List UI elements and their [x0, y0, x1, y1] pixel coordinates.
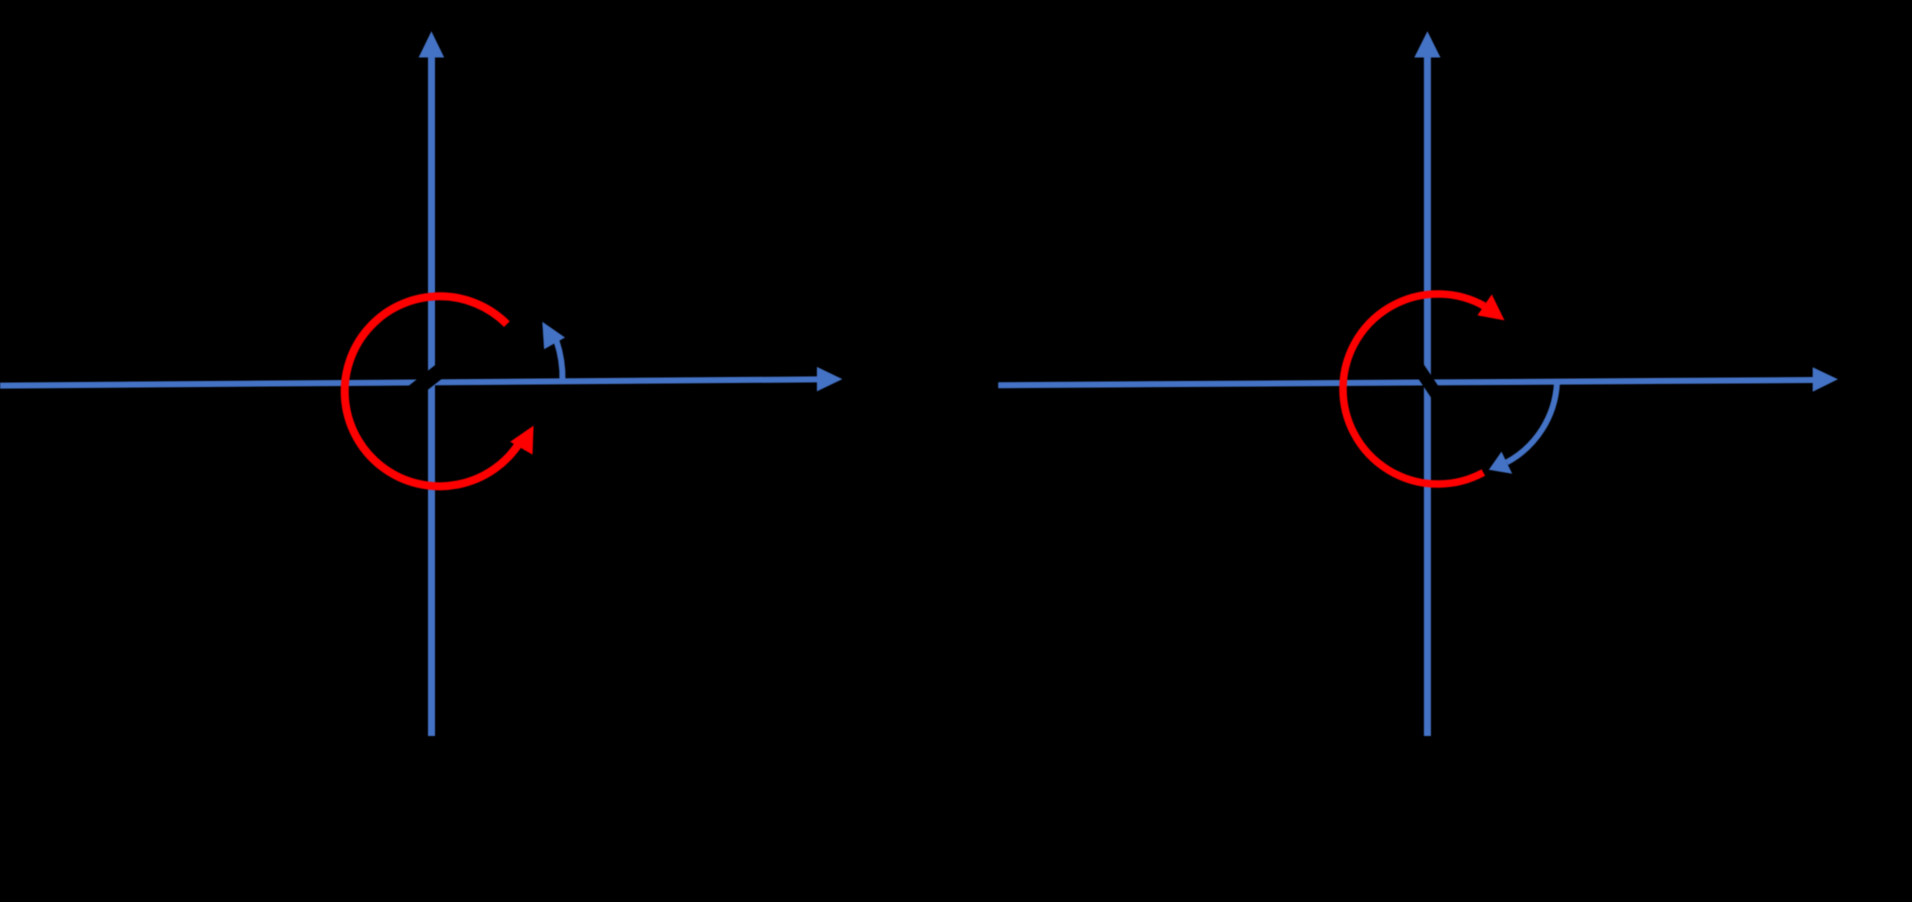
left red counterclockwise circular arrow	[345, 296, 534, 486]
right x-axis arrowhead	[1813, 367, 1838, 392]
left blue angle arc	[542, 322, 565, 381]
left blue arc arrowhead	[542, 322, 565, 350]
right blue arc arrowhead	[1489, 452, 1512, 474]
right black terminal ray (over axes and red arc)	[1406, 354, 1489, 468]
left red arrowhead	[510, 426, 533, 455]
left y-axis arrowhead	[419, 31, 445, 57]
left x-axis line	[0, 367, 842, 392]
right red arrowhead	[1477, 294, 1504, 320]
left x-axis arrowhead	[817, 367, 843, 392]
right y-axis arrowhead	[1414, 31, 1440, 57]
right y-axis line	[1414, 31, 1440, 736]
right x-axis line	[998, 367, 1838, 392]
left black terminal ray (over axes and red arc)	[395, 322, 500, 408]
right red clockwise circular arrow	[1343, 294, 1504, 484]
right blue angle arc	[1489, 383, 1557, 474]
left y-axis line	[419, 31, 445, 736]
